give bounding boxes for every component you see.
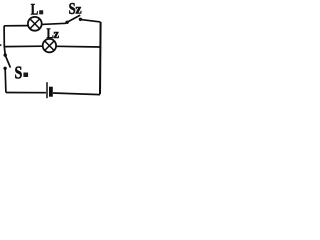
wire from switch S2 to top-right corner: [82, 20, 101, 22]
wire right border: [99, 22, 102, 94]
lamp L2: [43, 39, 56, 52]
tick mark left edge: [0, 44, 1, 46]
svg-text:z: z: [54, 27, 60, 41]
label L1: [31, 1, 43, 18]
label S1: [15, 64, 29, 83]
lamp L1: [28, 17, 42, 31]
label L2: [47, 24, 60, 41]
wire middle branch right (lamp L2 to right border): [57, 45, 101, 48]
label S2: [69, 0, 82, 18]
battery: [47, 82, 51, 98]
wire bottom-left from battery to corner: [6, 92, 46, 94]
wire left border lower (corner up to switch S1): [4, 70, 7, 93]
wire top-left from corner to lamp L1: [4, 25, 28, 27]
svg-text:L: L: [31, 1, 38, 18]
wire middle branch left (border to lamp L2): [4, 45, 42, 47]
wire from lamp L1 to switch S2: [42, 23, 66, 24]
svg-text:z: z: [75, 3, 81, 18]
wire left border upper (switch S1 up to top-left corner): [4, 26, 5, 54]
svg-text:S: S: [15, 64, 23, 83]
switch S2: [65, 15, 82, 24]
wire bottom-right from corner to battery: [53, 93, 100, 95]
switch S1: [3, 53, 10, 70]
